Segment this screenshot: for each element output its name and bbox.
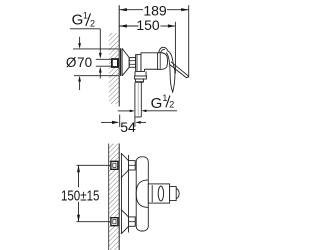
supply pipe in wall (two lines) (96, 58, 112, 60)
dimension 150 line (119, 25, 138, 27)
G 1/2 outlet left arrow (right-pointing) (118, 110, 131, 112)
svg-text:2: 2 (169, 100, 174, 110)
bottom union escutcheon cone (121, 210, 129, 234)
lever loop end-on (158, 186, 163, 201)
lever loop (hanging leaf) (166, 51, 175, 92)
knob cap (170, 186, 177, 200)
svg-text:G: G (72, 11, 84, 28)
dimension 54 (119, 115, 121, 128)
svg-text:150: 150 (136, 17, 160, 33)
G 1/2 outlet leader underline with left-pointing arrow (146, 110, 177, 112)
lever handle curl (top) (159, 47, 168, 52)
shower pipe (down) (134, 82, 136, 117)
svg-text:1: 1 (162, 93, 167, 103)
top union escutcheon cone (121, 153, 129, 177)
bottom union extension line (77, 221, 111, 223)
wall section (bottom view) (109, 144, 120, 250)
Ø70 extension line top (73, 48, 119, 50)
outlet stub below body (135, 71, 146, 76)
top union hex (129, 161, 136, 170)
top union square (111, 161, 118, 169)
outlet nut band (135, 76, 147, 79)
dimension 189 left arrow (119, 8, 127, 11)
svg-text:G: G (151, 95, 163, 112)
dimension 150±15 (78, 165, 80, 187)
cartridge dome (158, 53, 168, 70)
G 1/2 opposing arrow (up) (99, 73, 101, 79)
mixer body (141, 53, 158, 72)
Ø70 arrow bottom (up) (79, 81, 81, 90)
outlet collar (135, 79, 143, 82)
knob shaft (148, 184, 169, 203)
mixer body capsule (136, 157, 148, 231)
extension line right of 189 (188, 5, 190, 77)
G 1/2 leader arrow (down) (99, 29, 101, 53)
wall section (side view) (109, 33, 119, 104)
svg-text:1: 1 (83, 11, 88, 21)
Ø70 extension line bottom (74, 75, 119, 77)
lever blade (to dimension line) (170, 62, 189, 78)
wall face line (side view) (118, 5, 120, 106)
knob ring (151, 185, 153, 202)
top union extension line (77, 164, 111, 166)
Ø70 arrow top (down) (79, 37, 81, 44)
bottom union hex (129, 217, 136, 226)
wall face line (bottom view) (118, 144, 120, 250)
wall back line (bottom view) (108, 144, 110, 250)
escutcheon cone (side view) (120, 48, 122, 76)
svg-text:54: 54 (120, 119, 136, 135)
svg-text:70: 70 (77, 55, 92, 70)
escutcheon plane line (121, 153, 123, 234)
svg-text:Ø: Ø (66, 55, 77, 70)
hex nipple (129, 58, 135, 68)
svg-text:150±15: 150±15 (61, 187, 100, 204)
dimension 150 right arrow (168, 24, 176, 27)
svg-text:189: 189 (143, 2, 167, 18)
union nut (136, 55, 141, 72)
union square in wall (112, 59, 118, 67)
dimension 150 left arrow (119, 24, 127, 27)
dimension 189 right arrow (181, 8, 189, 11)
dimension 189 line (119, 9, 143, 11)
extension line right of 150 (174, 22, 176, 74)
cartridge dome (front bulge) (136, 180, 148, 208)
svg-text:2: 2 (90, 19, 95, 29)
bottom union square (111, 218, 118, 226)
hex plane line (128, 155, 130, 233)
G 1/2 leader underline (70, 28, 100, 30)
